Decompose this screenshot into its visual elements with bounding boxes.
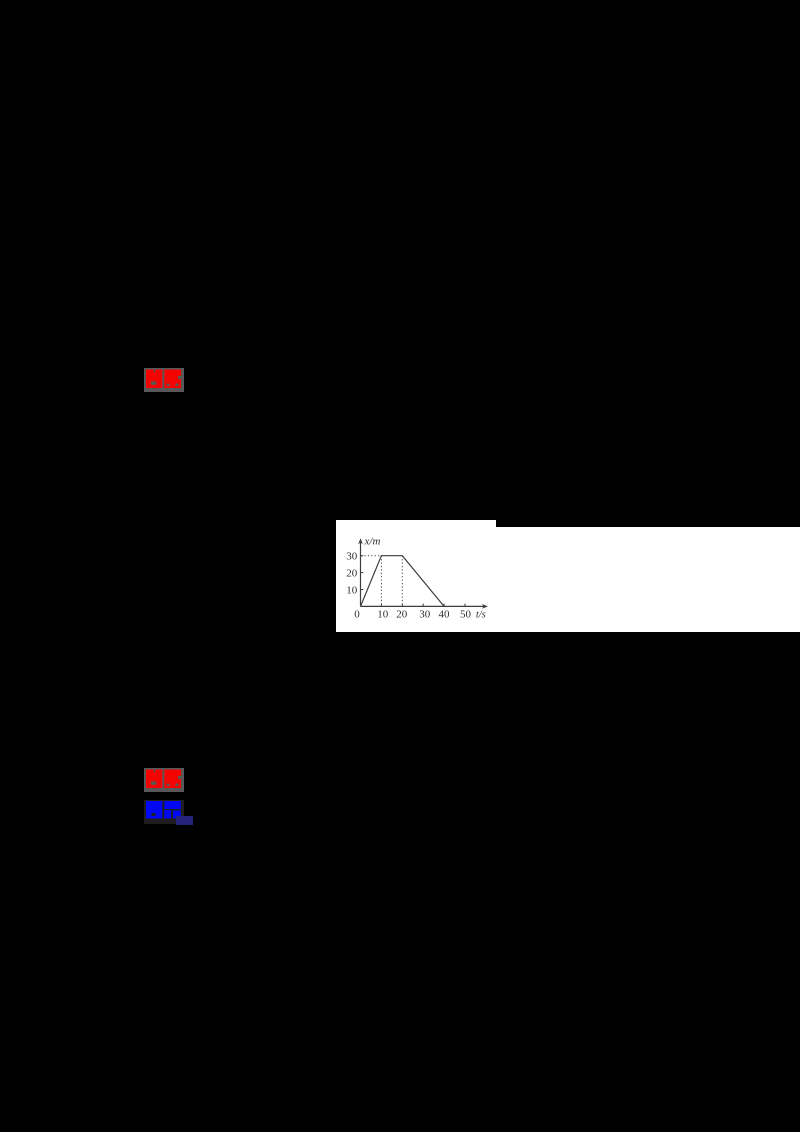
- svg-text:40: 40: [439, 609, 451, 621]
- svg-text:10: 10: [377, 609, 389, 621]
- svg-text:30: 30: [346, 551, 358, 563]
- svg-text:20: 20: [346, 568, 358, 580]
- dotted guide: vertical at t=10: [380, 556, 382, 606]
- y ticks: [361, 589, 364, 591]
- svg-text:10: 10: [346, 584, 358, 596]
- answer tag 1 (red, gray background): [144, 368, 184, 392]
- y-axis arrowhead: [358, 538, 363, 544]
- dotted guide: horizontal at x=30: [361, 555, 381, 557]
- x ticks: [380, 604, 382, 607]
- x-axis arrowhead: [482, 604, 488, 609]
- svg-text:30: 30: [419, 609, 431, 621]
- curve: rise, plateau, fall: [361, 556, 445, 607]
- dotted guide: vertical at t=20: [401, 556, 403, 606]
- svg-text:50: 50: [460, 609, 472, 621]
- svg-text:0: 0: [354, 609, 360, 621]
- answer tag 2 (red, gray background): [144, 768, 184, 792]
- svg-text:t/s: t/s: [476, 610, 486, 621]
- figure panel: white background main block: [336, 527, 800, 632]
- x-axis: [361, 605, 485, 607]
- small navy block overlapping analysis tag: [176, 816, 193, 825]
- svg-text:20: 20: [396, 609, 408, 621]
- analysis tag (blue, dark background): [144, 800, 184, 824]
- svg-text:x/m: x/m: [364, 536, 381, 548]
- x-t graph: [336, 520, 800, 632]
- figure panel: white background upper strip: [336, 520, 496, 528]
- y-axis: [360, 541, 362, 606]
